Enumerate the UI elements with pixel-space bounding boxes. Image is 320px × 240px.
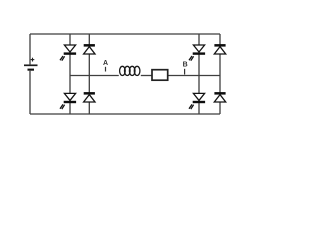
svg-text:B: B xyxy=(183,61,188,68)
svg-text:A: A xyxy=(103,60,108,67)
